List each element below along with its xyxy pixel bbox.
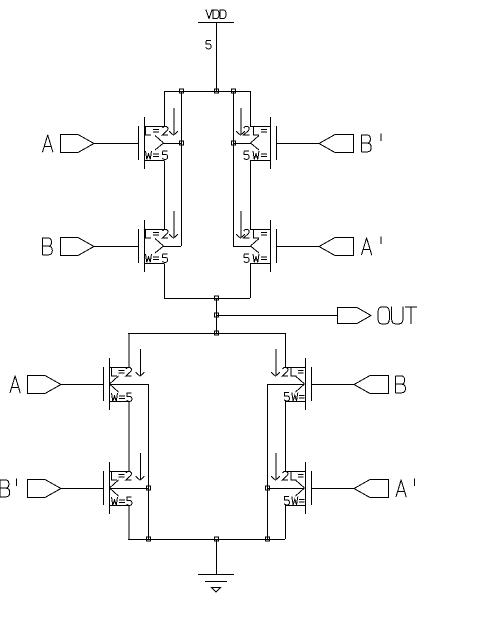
- wire VDD to M1/M2 bulk: [181, 91, 183, 246]
- wire VDD rail to M1 source: [164, 91, 166, 127]
- value label M1 W=5: [146, 151, 168, 159]
- pmos M2: [139, 211, 182, 272]
- junction pull-down rail / out stem: [215, 331, 219, 335]
- wire M3 drain to M4 source: [250, 161, 252, 230]
- input pin B' (bottom): [28, 480, 62, 498]
- value label M3 W=5: [244, 151, 267, 159]
- pmos M3: [233, 108, 277, 169]
- wire pin A to M5 gate: [61, 384, 103, 386]
- wire M7 source to M8 drain: [285, 402, 287, 472]
- input pin B' (top right): [319, 135, 354, 153]
- wire pin B to M2 gate: [94, 246, 138, 248]
- pmos M4: [233, 211, 277, 272]
- wire out to OUT pin: [216, 315, 337, 317]
- nmos M5: [104, 349, 149, 410]
- value label M5 W=5: [112, 393, 132, 401]
- junction VDD rail / M3 bulk: [232, 89, 236, 93]
- pin label A (top): [43, 135, 53, 152]
- input pin A (top): [61, 135, 95, 153]
- wire M5 source to M6 drain: [128, 402, 130, 472]
- pin label A' (bottom right): [396, 479, 415, 497]
- wire rail to M5 drain: [128, 333, 130, 368]
- wire pin A' to M8 gate: [312, 488, 355, 490]
- wire M5/M6 bulk to ground: [148, 384, 150, 539]
- value label M4 L=2: [244, 230, 267, 238]
- value label M7 L=2: [283, 368, 304, 376]
- value label M1 L=2: [146, 127, 169, 135]
- nmos M8: [267, 453, 312, 514]
- wire VDD rail to M3 source: [250, 91, 252, 127]
- pin label B' (bottom): [0, 479, 17, 497]
- junction M8 bulk: [266, 486, 270, 490]
- wire out vertical: [216, 298, 218, 333]
- junction M3 bulk: [232, 141, 236, 145]
- input pin A' (bottom right): [354, 480, 389, 498]
- value label M8 L=2: [283, 472, 304, 480]
- wire M7/M8 bulk to ground: [267, 384, 269, 539]
- pin label OUT: [378, 307, 417, 324]
- value label M6 W=5: [112, 497, 132, 505]
- wire VDD stem: [216, 23, 218, 92]
- input pin A' (top right): [319, 238, 354, 256]
- wire M6 source to ground rail: [128, 506, 130, 540]
- wire VDD rail: [164, 91, 250, 93]
- ground: [198, 575, 234, 593]
- value label M2 W=5: [146, 254, 168, 262]
- junction M6 bulk: [147, 486, 151, 490]
- junction ground rail / M6 bulk: [147, 537, 151, 541]
- value label M8 W=5: [284, 497, 304, 505]
- value label M5 L=2: [112, 368, 132, 376]
- wire pin A' to M4 gate: [277, 246, 319, 248]
- wire rail to M7 drain: [285, 333, 287, 368]
- junction ground rail / ground stem: [215, 537, 219, 541]
- input pin B (top): [61, 238, 95, 256]
- wire M1 drain to M2 source: [164, 161, 166, 230]
- wire M2 drain to pull-up node: [164, 264, 166, 299]
- nmos M6: [104, 453, 149, 514]
- value label M3 L=2: [244, 127, 267, 135]
- wire ground rail: [128, 539, 285, 541]
- wire ground stem: [216, 539, 218, 574]
- input pin A (bottom): [28, 376, 62, 394]
- pin label A' (top right): [362, 237, 382, 255]
- wire M8 source to ground rail: [285, 506, 287, 540]
- value label M7 W=5: [284, 393, 304, 401]
- wire pull-down source rail: [128, 333, 285, 335]
- pin label B (top): [43, 238, 53, 255]
- output pin OUT: [338, 308, 372, 324]
- value label M2 L=2: [146, 230, 169, 238]
- junction ground rail / M8 bulk: [266, 537, 270, 541]
- pin label B' (top right): [362, 134, 382, 152]
- pmos M1: [139, 108, 182, 169]
- wire pin B' to M6 gate: [61, 488, 103, 490]
- value label 5 on VDD stem: [206, 41, 211, 49]
- wire pin B to M7 gate: [312, 384, 355, 386]
- junction VDD rail / stem: [215, 89, 219, 93]
- value label M4 W=5: [244, 254, 267, 262]
- junction pull-up rail / out stem: [215, 296, 219, 300]
- wire VDD to M3/M4 bulk: [233, 91, 235, 246]
- junction out node: [215, 313, 219, 317]
- wire M4 drain to pull-up node: [250, 264, 252, 299]
- wire pull-up drain rail: [164, 298, 250, 300]
- pin label A (bottom): [10, 376, 20, 393]
- value label M6 L=2: [112, 472, 132, 480]
- input pin B (bottom right): [354, 376, 389, 394]
- junction VDD rail / M1 bulk: [180, 89, 184, 93]
- junction M1 bulk: [180, 141, 184, 145]
- pin label B (bottom right): [396, 376, 406, 393]
- wire pin B' to M3 gate: [277, 143, 319, 145]
- wire pin A to M1 gate: [94, 143, 138, 145]
- power symbol VDD: [198, 10, 234, 23]
- nmos M7: [267, 349, 312, 410]
